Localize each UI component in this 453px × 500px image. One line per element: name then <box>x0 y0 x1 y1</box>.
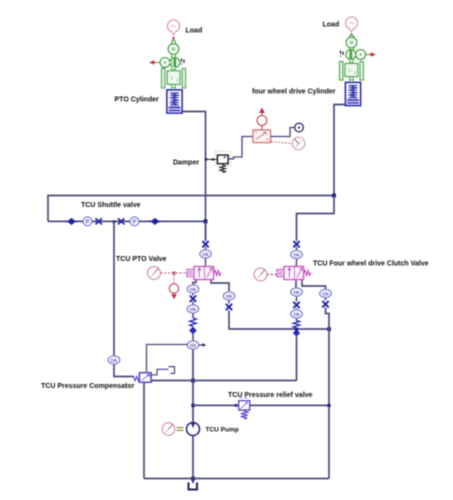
damper dashed frame <box>216 151 232 166</box>
wire X to Db PTO column <box>205 247 207 250</box>
red circle with arrow above <box>257 109 267 131</box>
wire compensator drain <box>143 382 145 479</box>
svg-text:Db: Db <box>190 307 196 312</box>
wire col4 X jog down <box>326 308 330 330</box>
wire Db to PTO valve top <box>205 258 207 267</box>
pressure sensor circle <box>295 123 303 131</box>
wire tank stub <box>192 479 194 484</box>
wire relief valve line left <box>193 404 239 406</box>
check valve col1 spring <box>190 318 197 326</box>
sensor Db col3 a <box>291 288 303 296</box>
wire col3 X-Db <box>296 309 298 311</box>
wire col2 Db-X <box>228 300 230 304</box>
svg-text:Db: Db <box>226 294 232 299</box>
wire col1 X-Db <box>192 302 194 306</box>
wire PTO valve left out <box>193 280 196 286</box>
svg-text:TCU Pressure relief valve: TCU Pressure relief valve <box>228 392 313 399</box>
signal dashed 4WD gauge to valve <box>267 274 277 276</box>
end stop marks right <box>341 51 344 57</box>
wire col2 X down and right to col4 line <box>229 311 329 330</box>
orifice X col1 <box>190 296 196 302</box>
wire relief valve line right <box>250 404 329 406</box>
wire red valve to pressure sensor <box>271 128 295 137</box>
node junction 4WD top <box>332 194 336 198</box>
svg-text:P: P <box>86 220 90 226</box>
node signal tee PTO <box>173 272 176 275</box>
clutch symbol left <box>170 58 180 68</box>
wire compensator output line <box>151 380 297 382</box>
orifice X main PTO column <box>202 241 208 247</box>
sensor Db 4WD column <box>291 250 303 258</box>
wire right return down <box>328 329 330 479</box>
load source left <box>168 20 180 35</box>
relief valve spring <box>241 410 248 419</box>
gauge 4WD signal source <box>254 268 267 281</box>
svg-text:TCU PTO Valve: TCU PTO Valve <box>116 256 167 263</box>
sensor P left <box>83 217 92 226</box>
pump signal link <box>177 428 184 431</box>
sensor Db col1 a <box>187 285 199 293</box>
wire 4WD valve right out <box>302 280 326 290</box>
tank symbol <box>189 483 198 490</box>
wire 4WD cylinder down <box>334 105 346 196</box>
svg-text:Load: Load <box>186 28 203 35</box>
wire pump to bottom <box>192 436 194 479</box>
sensor Db shuttle drop <box>108 356 120 364</box>
red accumulator charge valve <box>253 130 271 143</box>
node junction col4 line <box>327 327 331 331</box>
svg-text:Db: Db <box>190 343 196 348</box>
node junction shuttle-main <box>204 219 208 223</box>
shuttle diamond left <box>65 218 78 224</box>
wire col1 check to Db node <box>192 334 194 341</box>
compensator pilot bracket <box>151 367 175 375</box>
node junction compensator line <box>191 379 195 383</box>
svg-text:Db: Db <box>322 292 328 297</box>
sensor Db col1 node <box>187 341 199 349</box>
shuttle diamond right <box>149 218 162 224</box>
red link left load <box>172 36 175 41</box>
damper valve <box>218 155 229 163</box>
wire col4 Db-X <box>325 298 327 301</box>
node shuttle tee <box>112 220 115 223</box>
damper spring <box>220 164 225 173</box>
check valve col3 poppet <box>293 330 301 337</box>
relief valve inlet dot <box>235 404 238 407</box>
end stop marks left <box>182 59 185 65</box>
sensor Db col2 <box>223 292 235 300</box>
orifice X col4 <box>322 301 328 307</box>
wire PTO valve right out <box>211 280 229 292</box>
compensator spring <box>134 376 140 381</box>
wire pilot from Db node to compensator top <box>147 345 189 373</box>
mass assembly left <box>162 67 186 89</box>
pump TCU Pump <box>187 423 200 436</box>
wire main line shuttle to PTO valve <box>205 221 207 241</box>
green node circle left <box>157 58 170 68</box>
force input arrow right <box>369 53 375 56</box>
constant source red circle <box>169 275 178 299</box>
svg-text:Db: Db <box>202 252 208 257</box>
wire col1 Db node down to pump <box>192 349 194 423</box>
orifice X1 shuttle <box>96 218 102 224</box>
wire col1 Db-spring <box>192 313 194 318</box>
signal arrow from Db node <box>199 343 206 347</box>
svg-text:Db: Db <box>111 358 117 363</box>
node junction pump bottom <box>191 477 195 481</box>
relief valve body <box>239 401 250 410</box>
valve U2 spring <box>304 271 312 276</box>
signal dashed PTO gauge to valve <box>161 272 187 274</box>
wire box top line <box>48 196 334 222</box>
wire shuttle center drop <box>113 221 115 356</box>
load source right <box>346 17 358 32</box>
wire 4WD valve left out <box>295 280 297 289</box>
gauge near red valve <box>292 137 304 149</box>
svg-text:Db: Db <box>293 253 299 258</box>
check valve col3 spring <box>293 321 300 329</box>
wire 4WD valve feed <box>297 196 335 242</box>
orifice X col2 <box>226 304 232 310</box>
sensor Db col4 <box>320 289 332 297</box>
orifice X2 shuttle <box>118 218 124 224</box>
wire shuttle row <box>48 220 206 222</box>
sensor Db main PTO column <box>200 250 212 258</box>
green node circle right <box>356 50 369 60</box>
4WD cylinder <box>346 80 361 106</box>
svg-text:Db: Db <box>190 287 196 292</box>
green rotary right <box>346 36 357 51</box>
valve U1 solenoid <box>187 270 194 277</box>
svg-text:four wheel drive Cylinder: four wheel drive Cylinder <box>252 89 336 96</box>
sensor P right <box>130 217 139 226</box>
valve U1 TCU PTO valve body <box>194 264 214 283</box>
sensor Db col1 b <box>187 305 199 313</box>
wire bottom return <box>144 478 329 480</box>
node junction col3 on line <box>295 328 298 331</box>
wire PTO cylinder to main line <box>182 112 206 242</box>
green rotary left <box>168 41 179 58</box>
wire col3 Db-X <box>296 296 298 302</box>
svg-text:TCU Shuttle valve: TCU Shuttle valve <box>81 202 141 209</box>
clutch symbol right <box>346 50 356 60</box>
gauge PTO signal source <box>148 267 161 280</box>
orifice X col3 <box>293 302 299 308</box>
svg-text:PTO Cylinder: PTO Cylinder <box>115 97 159 104</box>
wire col3 check down to compensator line <box>296 337 298 381</box>
orifice X 4WD column <box>293 241 299 247</box>
signal dashed red valve to gauge <box>271 142 291 144</box>
mass assembly right <box>340 59 364 80</box>
relief valve dashes <box>240 397 248 399</box>
svg-text:Db: Db <box>293 312 299 317</box>
wire Db to compensator <box>114 364 134 377</box>
svg-text:Load: Load <box>323 22 340 29</box>
force input arrow left <box>150 61 157 64</box>
svg-text:TCU Pressure Compensator: TCU Pressure Compensator <box>41 383 135 390</box>
node junction relief right <box>327 404 330 407</box>
wire col3 Db-spring <box>296 318 298 321</box>
svg-text:Damper: Damper <box>173 160 199 167</box>
pump gauge <box>162 423 175 436</box>
red link right load <box>350 33 353 38</box>
compensator valve <box>140 373 152 382</box>
wire 4WD X to Db <box>296 247 298 251</box>
valve U2 solenoid <box>277 270 284 277</box>
check valve col1 poppet <box>189 327 197 335</box>
damper link <box>205 158 218 161</box>
wire damper to red valve <box>228 137 253 159</box>
sensor Db col3 b <box>291 310 303 318</box>
PTO cylinder <box>167 88 182 114</box>
svg-text:Db: Db <box>293 290 299 295</box>
svg-text:TCU Four wheel drive Clutch Va: TCU Four wheel drive Clutch Valve <box>313 261 429 268</box>
svg-text:P: P <box>133 220 137 226</box>
node junction relief line <box>191 404 195 408</box>
svg-text:TCU Pump: TCU Pump <box>206 427 239 434</box>
wire col1 Db-X <box>192 293 194 296</box>
valve U1 spring <box>214 271 222 276</box>
wire 4WD Db to valve top <box>296 259 298 267</box>
valve U2 TCU 4WD clutch valve body <box>284 264 304 283</box>
